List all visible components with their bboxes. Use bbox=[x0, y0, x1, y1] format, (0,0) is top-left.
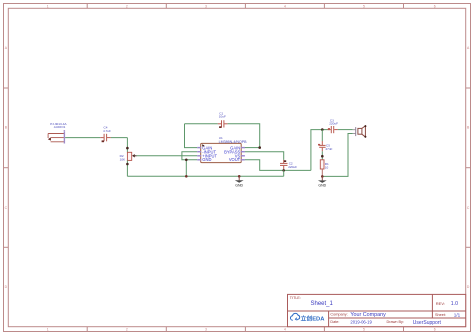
wire branch to C5 bbox=[321, 130, 323, 141]
wire C1 left horizontal bbox=[185, 123, 218, 125]
svg-text:10: 10 bbox=[325, 165, 329, 169]
node R2 bottom bbox=[126, 163, 129, 166]
svg-text:UserSupport: UserSupport bbox=[413, 320, 442, 326]
svg-text:5: 5 bbox=[363, 4, 365, 8]
capacitor C3 polarity mark bbox=[328, 128, 330, 130]
title block row divider 1 bbox=[288, 310, 466, 312]
svg-text:GND: GND bbox=[318, 184, 326, 188]
speaker horn bbox=[362, 126, 366, 137]
op-amp U1 body bbox=[201, 143, 242, 162]
connector AUDIO1 labels bbox=[50, 122, 67, 129]
svg-text:1: 1 bbox=[47, 4, 49, 8]
connector AUDIO1 pin bar bbox=[63, 131, 65, 143]
node C5 R1 bbox=[321, 155, 324, 158]
ground symbol left bbox=[235, 176, 244, 187]
frame column ticks bottom bbox=[87, 327, 403, 332]
wire C5 to R1 bbox=[321, 151, 323, 160]
potentiometer R2 wiper arrow bbox=[132, 154, 135, 157]
svg-text:Company:: Company: bbox=[330, 313, 347, 317]
svg-text:Date:: Date: bbox=[330, 320, 339, 324]
svg-text:5: 5 bbox=[363, 328, 365, 332]
svg-text:6: 6 bbox=[434, 4, 436, 8]
wire R2 bottom down bbox=[126, 160, 128, 176]
svg-text:2: 2 bbox=[126, 4, 128, 8]
ground symbol right bbox=[318, 176, 327, 187]
capacitor C2 labels bbox=[288, 162, 297, 170]
svg-text:4: 4 bbox=[284, 4, 286, 8]
svg-text:220uF: 220uF bbox=[329, 122, 338, 126]
title block logo cell divider bbox=[328, 311, 330, 327]
node R2 top bbox=[126, 147, 129, 150]
capacitor C1 bbox=[218, 120, 228, 127]
frame row ticks left bbox=[4, 88, 9, 247]
capacitor C4 polarity mark bbox=[102, 140, 104, 142]
op-amp U1 pins right bbox=[241, 148, 245, 160]
wire speaker bottom bbox=[322, 134, 352, 177]
svg-text:3: 3 bbox=[205, 328, 207, 332]
connector AUDIO1 symbol bbox=[48, 134, 64, 142]
wire corner down to R2 bbox=[126, 138, 128, 153]
title block border bbox=[288, 294, 466, 326]
node R1 bottom bbox=[321, 175, 324, 178]
potentiometer R2 labels bbox=[120, 154, 126, 161]
svg-text:6: 6 bbox=[434, 328, 436, 332]
frame row letters bbox=[5, 46, 470, 289]
svg-text:2019-06-19: 2019-06-19 bbox=[350, 319, 372, 324]
speaker pins bbox=[353, 130, 356, 134]
capacitor C3 bbox=[328, 126, 338, 133]
op-amp U1 pin names right bbox=[224, 146, 241, 163]
speaker horn tips bbox=[364, 125, 366, 127]
svg-text:GND: GND bbox=[202, 157, 211, 162]
svg-text:1.0: 1.0 bbox=[451, 301, 458, 307]
capacitor C4 labels bbox=[103, 126, 111, 133]
wire C4 to corner bbox=[111, 137, 128, 139]
potentiometer R2 body bbox=[127, 152, 131, 160]
capacitor C5 polarity mark bbox=[318, 144, 320, 146]
svg-text:1/1: 1/1 bbox=[454, 312, 461, 317]
frame row ticks right bbox=[466, 88, 471, 247]
frame column ticks top bbox=[87, 4, 403, 9]
svg-text:TITLE:: TITLE: bbox=[290, 296, 301, 300]
wire bus up to C2 bottom bbox=[283, 170, 285, 176]
wire R1 to GND bbox=[321, 169, 323, 176]
node GND pin bbox=[185, 159, 188, 162]
svg-text:VOUT: VOUT bbox=[229, 157, 241, 162]
svg-text:AUDIO1: AUDIO1 bbox=[54, 125, 66, 129]
svg-text:220uF: 220uF bbox=[288, 165, 297, 169]
svg-text:10uF: 10uF bbox=[219, 115, 226, 119]
svg-text:47nF: 47nF bbox=[325, 147, 332, 151]
node C5 branch bbox=[321, 128, 324, 131]
wire jack to C4 bbox=[65, 137, 100, 139]
svg-text:立创EDA: 立创EDA bbox=[301, 314, 326, 322]
easyeda logo cloud bbox=[290, 313, 299, 320]
capacitor C1 polarity mark bbox=[219, 126, 221, 128]
svg-text:4: 4 bbox=[284, 328, 286, 332]
op-amp U1 pin names left bbox=[202, 146, 217, 163]
connector AUDIO1 tip arrow bbox=[48, 137, 51, 140]
svg-text:GND: GND bbox=[235, 183, 243, 187]
op-amp U1 labels bbox=[219, 136, 248, 144]
capacitor C2 polarity mark bbox=[284, 160, 286, 162]
svg-text:3: 3 bbox=[205, 4, 207, 8]
svg-text:Drawn By:: Drawn By: bbox=[387, 320, 405, 324]
svg-text:REV:: REV: bbox=[436, 301, 445, 306]
resistor R1 labels bbox=[325, 162, 329, 169]
node bus left bbox=[185, 175, 188, 178]
svg-text:1: 1 bbox=[47, 328, 49, 332]
wire BYPASS to C2 bbox=[245, 152, 284, 160]
op-amp U1 pins left bbox=[197, 148, 201, 160]
wire GND bus bbox=[127, 175, 283, 177]
capacitor C3 labels bbox=[329, 118, 338, 125]
wire C1 left vertical bbox=[185, 124, 198, 148]
svg-text:4.7uF: 4.7uF bbox=[103, 129, 111, 133]
wire -INPUT loop bbox=[182, 152, 197, 160]
capacitor C5 bbox=[319, 141, 325, 151]
resistor R1 body bbox=[320, 160, 324, 169]
svg-text:Sheet_1: Sheet_1 bbox=[311, 301, 334, 307]
op-amp U1 pin1 mark bbox=[202, 144, 205, 147]
node GND bus tap bbox=[238, 175, 241, 178]
connector AUDIO1 pin number bbox=[64, 130, 66, 131]
wire output rise bbox=[311, 130, 328, 171]
node GAIN8 bbox=[258, 146, 261, 149]
speaker body bbox=[358, 128, 362, 134]
wire VOUT to output node bbox=[245, 160, 311, 171]
speaker bar bbox=[355, 127, 357, 136]
wire R2 wiper to U1 +INPUT bbox=[137, 155, 198, 157]
capacitor C4 bbox=[100, 134, 111, 142]
wire GAIN8 pin bbox=[244, 147, 259, 149]
svg-text:10K: 10K bbox=[120, 157, 126, 161]
node C2 bottom bbox=[282, 169, 285, 172]
capacitor C2 bbox=[280, 160, 288, 169]
title block rev cell divider bbox=[431, 294, 433, 318]
title block row divider 2 bbox=[329, 317, 466, 319]
svg-text:Sheet:: Sheet: bbox=[435, 313, 446, 317]
wire C3 to speaker bbox=[338, 129, 353, 131]
capacitor C5 labels bbox=[325, 144, 332, 151]
capacitor C1 labels bbox=[219, 111, 226, 118]
wire GND pin drop bbox=[185, 160, 187, 177]
wire C1 right to GAIN8 bbox=[228, 124, 260, 148]
svg-text:Your Company: Your Company bbox=[350, 312, 386, 318]
svg-text:2: 2 bbox=[126, 328, 128, 332]
